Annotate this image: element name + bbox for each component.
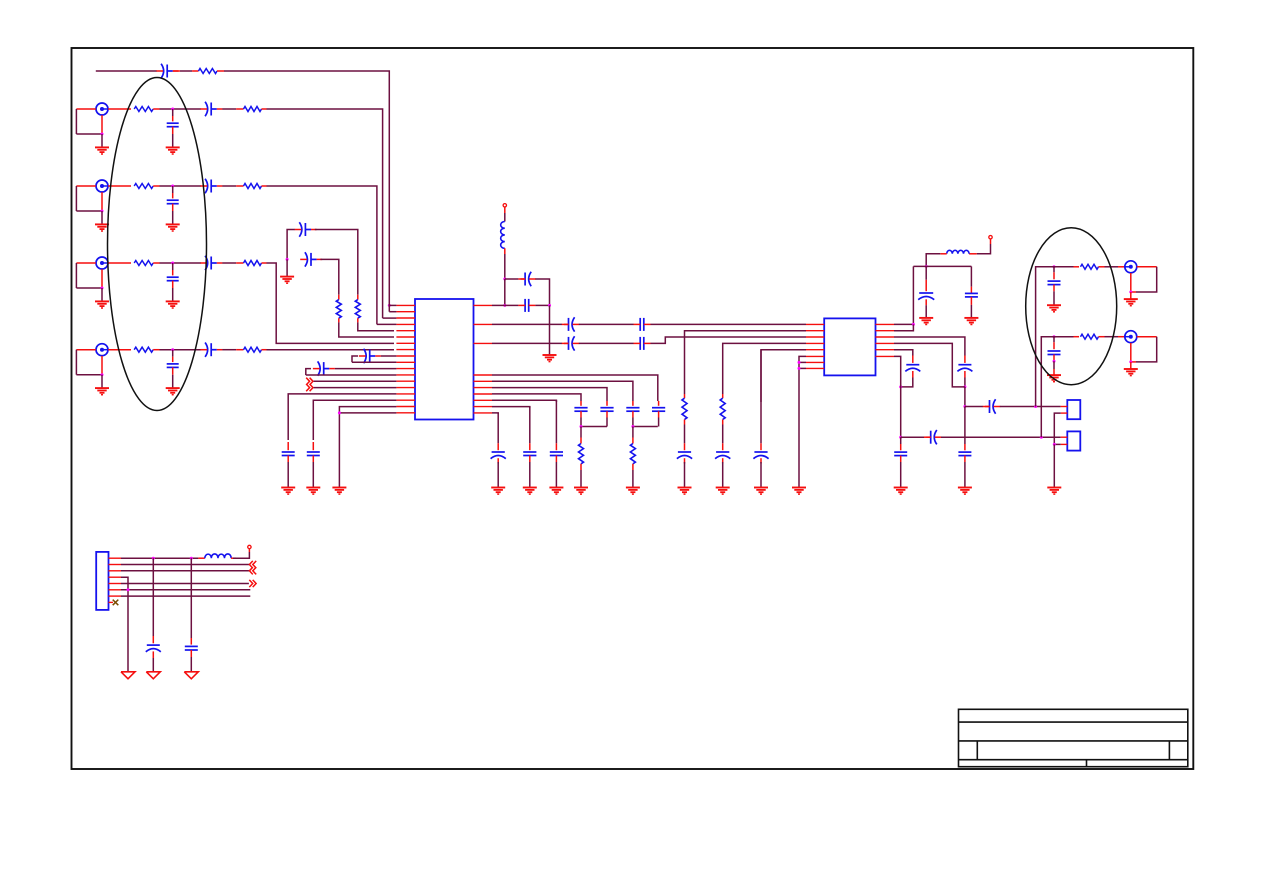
capacitor C series row y=186: [205, 179, 208, 193]
ground: [166, 223, 180, 225]
connector CON box1: [1067, 400, 1080, 419]
wire staple pin12: [306, 374, 397, 376]
resistor R1 top: [192, 70, 198, 72]
ground: [792, 487, 806, 489]
wire loop to ground: [76, 262, 95, 264]
node junction: [631, 425, 634, 428]
capacitor C R5 pol: [912, 356, 914, 363]
wire: [1048, 266, 1074, 268]
wire chain2: [492, 342, 562, 344]
wire row4 to pin8: [267, 349, 395, 351]
node pin1 junction: [388, 304, 391, 307]
U2 left pin stubs: [806, 323, 824, 325]
wire output bus2 up: [1041, 337, 1048, 438]
wire bus to pin2: [389, 311, 396, 313]
box1 pin stubs: [1061, 406, 1068, 408]
capacitor C series cluster B: [305, 252, 308, 266]
op-amp U2 second IC: [824, 318, 875, 375]
node loop junction: [101, 133, 104, 136]
box2 pin stubs: [1061, 436, 1068, 438]
wire to node: [160, 185, 201, 187]
node loop junction: [101, 287, 104, 290]
node junction: [171, 108, 174, 111]
capacitor C column x=658.6: [658, 401, 660, 406]
wire U1 r5 to cap: [492, 400, 556, 402]
wire U2 R3 to cap col: [894, 337, 965, 356]
wire chain y437 right seg: [941, 436, 1061, 438]
input connector J row y=109: [96, 103, 108, 115]
ground: [958, 487, 972, 489]
wire to power pin: [233, 552, 249, 558]
wire pin15 to cap gnd: [288, 394, 396, 440]
capacitor C R3 pol: [964, 356, 966, 363]
wire staple pin10: [352, 361, 396, 363]
U1 right pin stubs upper: [474, 304, 493, 306]
node pin17/18 junction: [338, 411, 341, 414]
resistor R series: [108, 262, 131, 264]
capacitor C output shunt: [1053, 337, 1055, 343]
ground: [1130, 292, 1132, 299]
U1 left pin stubs: [396, 304, 415, 306]
wire: [504, 248, 506, 254]
node output junction y=266.8: [1053, 265, 1056, 268]
wire capA right to resistor right: [315, 230, 358, 295]
off-page chevron row3: [253, 567, 256, 574]
capacitor C rail 2 + ground: [970, 266, 972, 286]
wire U2 L8: [799, 367, 806, 369]
node junction: [1053, 443, 1056, 446]
wire: [504, 207, 506, 213]
ellipse highlight right: [1026, 228, 1117, 385]
node junction: [899, 436, 902, 439]
node junction: [171, 262, 174, 265]
wire chain y406 right seg: [1000, 406, 1061, 408]
wire cap column 1: [152, 558, 154, 636]
wire rail down to R1: [912, 266, 914, 324]
wire capA left down: [287, 230, 295, 260]
wire chain1: [492, 323, 562, 325]
capacitor C shunt: [172, 109, 174, 116]
wire chain y406 left seg: [965, 406, 983, 408]
wire cap2 to ground: [1053, 361, 1055, 369]
wire chain2 jog to U2: [651, 337, 807, 343]
capacitor C1 series top: [161, 64, 164, 78]
wire: [222, 349, 236, 351]
wire: [222, 185, 236, 187]
node loop junction: [101, 373, 104, 376]
node cluster gnd junction: [286, 258, 289, 261]
node junction: [503, 304, 506, 307]
wire: [222, 108, 236, 110]
capacitor C chain2 b: [639, 337, 641, 350]
capacitor C r5 + ground: [555, 400, 557, 443]
ground: [95, 223, 109, 225]
capacitor C column x=581.0: [580, 401, 582, 406]
node junction: [1129, 291, 1132, 294]
wire to node: [160, 349, 201, 351]
wire U1 r2 to cap column: [492, 381, 633, 401]
node loop junction: [101, 210, 104, 213]
node junction: [503, 278, 506, 281]
wire loop to ground: [76, 349, 95, 351]
page border frame: [72, 48, 1194, 769]
resistor R series 2: [236, 185, 243, 187]
wire loop: [1137, 336, 1157, 338]
resistor R right column: [632, 427, 634, 438]
resistor R output: [1074, 336, 1080, 338]
ground: [166, 146, 180, 148]
resistor R series 2: [236, 349, 243, 351]
wire bus1 to pin3: [382, 316, 384, 318]
resistor R left column: [580, 427, 582, 438]
wire to ground: [286, 259, 288, 276]
off-page chevron pin14: [306, 384, 309, 391]
node output junction y=336.7: [1053, 335, 1056, 338]
U2 right pin stubs: [876, 323, 895, 325]
node junction: [580, 425, 583, 428]
wire top to bus: [224, 71, 389, 303]
wire: [222, 262, 236, 264]
wire top antenna line: [96, 70, 157, 72]
off-page chevron row5: [249, 580, 252, 587]
wire pin16 to cap gnd: [313, 400, 396, 440]
resistor R output: [1074, 266, 1080, 268]
inductor L2 horizontal: [969, 253, 977, 255]
node junction: [1040, 436, 1043, 439]
power pin VCC2: [989, 236, 992, 239]
capacitor C L5 pol + ground: [760, 350, 762, 444]
wire J2 row3: [121, 570, 249, 572]
ellipse highlight left: [108, 78, 207, 411]
ground: [95, 387, 109, 389]
wire U1 r3 to cap column: [492, 388, 607, 401]
wire cap column 2: [190, 558, 192, 638]
wire to node: [160, 262, 201, 264]
ground: [574, 487, 588, 489]
wire box1 lower pin: [1054, 413, 1060, 444]
wire row2 to bus: [267, 186, 377, 323]
inductor L3: [198, 557, 204, 559]
capacitor C series cluster A: [299, 222, 302, 236]
wire J2 row1 power: [121, 557, 198, 559]
wire to ground: [549, 305, 551, 355]
resistor R L4: [722, 394, 724, 398]
ground: [280, 276, 294, 278]
op-amp U1 main IC: [415, 299, 474, 420]
ground: [306, 487, 320, 489]
input connector J row y=186: [96, 180, 108, 192]
node junction: [899, 385, 902, 388]
ground: [1047, 487, 1061, 489]
input connector J row y=349.7: [96, 344, 108, 356]
capacitor C pin15: [287, 442, 289, 450]
ground: [332, 487, 346, 489]
capacitor C series row y=263: [205, 256, 208, 270]
node junction: [127, 588, 130, 591]
wire cont down to cap: [964, 407, 966, 445]
no-connect X: [113, 600, 119, 606]
wire row1 to bus: [267, 109, 383, 316]
input connector J row y=263: [96, 257, 108, 269]
inductor L1 vertical: [501, 222, 505, 249]
capacitor C x964 + ground: [964, 444, 966, 450]
output connector: [1118, 266, 1125, 268]
wire down: [504, 279, 506, 305]
wire U2 R1/R2 to rail: [894, 323, 913, 325]
wire: [990, 239, 992, 244]
title block: [959, 709, 1188, 766]
node junction: [963, 385, 966, 388]
capacitor C rail pol + ground: [925, 266, 927, 279]
capacitor C L2 pol + ground: [684, 425, 686, 444]
capacitor C series (bypass A): [505, 278, 519, 280]
capacitor C staple pin9: [352, 356, 358, 362]
capacitor C col1 polarized: [152, 636, 154, 643]
node junction: [798, 361, 801, 364]
wire U1 r4 to cap column: [492, 394, 581, 401]
ground: [543, 354, 557, 356]
wire to rail: [926, 254, 940, 267]
ground: [1047, 374, 1061, 376]
connector J2 bottom left: [96, 552, 108, 610]
resistor R cluster right: [357, 295, 359, 300]
wire to node: [160, 108, 201, 110]
wire J2 row5: [121, 583, 249, 585]
ground: [95, 146, 109, 148]
chassis ground row4: [121, 672, 135, 679]
wire U2 L5 to cap: [761, 350, 806, 402]
wire loop to ground: [76, 185, 95, 187]
capacitor C pin16: [312, 442, 314, 450]
node junction: [171, 348, 174, 351]
node junction: [798, 367, 801, 370]
wire loop: [1137, 266, 1157, 268]
wire cap1 to ground: [1053, 291, 1055, 305]
wire: [1048, 336, 1074, 338]
capacitor C chain1 b: [639, 318, 641, 331]
node junction: [190, 557, 193, 560]
wire U2 R5 to cap: [894, 350, 913, 356]
capacitor C series y406: [989, 400, 991, 413]
wire down to ground: [1053, 444, 1055, 487]
ground: [166, 300, 180, 302]
node junction: [1053, 360, 1056, 363]
wire U1 r7 to cap: [492, 413, 498, 414]
wire pin17 to gnd: [339, 407, 396, 488]
power pin VCC3: [248, 545, 251, 548]
capacitor C shunt: [172, 263, 174, 270]
capacitor C r7 polarized + ground: [497, 413, 499, 443]
wire row3 to pin7: [267, 263, 395, 343]
chassis ground col2: [184, 672, 198, 679]
wire to pin5: [358, 322, 394, 330]
wire to pin6: [339, 322, 394, 337]
capacitor C shunt: [172, 350, 174, 357]
wire J2 row7: [121, 595, 250, 597]
wire U2 L4 to cap column: [723, 343, 806, 394]
wire U2 L7: [799, 361, 806, 363]
wire chain y437 left seg: [901, 436, 925, 438]
wire output bus1 up: [1036, 267, 1048, 407]
wire cap pair join left: [581, 426, 607, 428]
wire loop to ground: [76, 108, 95, 110]
ground: [919, 317, 933, 319]
resistor R series: [108, 185, 131, 187]
resistor R series: [108, 108, 131, 110]
wire: [579, 342, 634, 344]
wire bus2 to pin4: [376, 323, 378, 325]
ground: [1130, 362, 1132, 369]
ground: [1047, 304, 1061, 306]
ground: [894, 487, 908, 489]
off-page chevron row2: [253, 561, 256, 568]
capacitor C column x=632.9: [632, 401, 634, 406]
capacitor C output shunt: [1053, 267, 1055, 273]
resistor R cluster left: [338, 295, 340, 300]
capacitor C series row y=349.7: [205, 343, 208, 357]
wire capB right to resistor left: [320, 259, 338, 294]
capacitor C series y437: [930, 431, 932, 444]
capacitor C col2: [190, 638, 192, 645]
chassis ground col1: [146, 672, 160, 679]
wire: [180, 70, 192, 72]
ground: [281, 487, 295, 489]
ground: [166, 387, 180, 389]
wire pinR1 to node: [492, 304, 505, 306]
off-page chevron pin13: [306, 378, 309, 385]
wire U2 L2 to cap column: [685, 331, 807, 394]
J2 pin stubs: [109, 557, 122, 559]
node junction: [171, 185, 174, 188]
wire pin18 join: [339, 412, 396, 414]
ground: [95, 300, 109, 302]
wire J2 row4 jog down: [121, 577, 128, 672]
wire x900 cont to cap: [900, 437, 902, 444]
capacitor C x900 + ground: [900, 444, 902, 450]
resistor R series 2: [236, 108, 243, 110]
node junction: [963, 405, 966, 408]
ground: [964, 317, 978, 319]
power pin VCC1: [503, 204, 506, 207]
wire cap pair join right: [633, 426, 658, 428]
capacitor C staple pin11: [306, 369, 311, 375]
wire: [535, 279, 549, 305]
node junction: [925, 265, 928, 268]
capacitor C r6 + ground: [529, 407, 531, 444]
wire vert cont down: [964, 387, 966, 407]
capacitor C series row y=109: [205, 102, 208, 116]
ground: [626, 487, 640, 489]
resistor R L2: [684, 394, 686, 398]
capacitor C column x=607.0: [606, 401, 608, 406]
wire U1 r1 to cap column: [492, 375, 658, 401]
wire power rail: [913, 265, 971, 267]
wire J2 row6: [121, 589, 250, 591]
node junction: [912, 323, 915, 326]
wire chain1 to U2: [651, 323, 807, 325]
wire U2 R4 jog: [894, 343, 965, 387]
wire: [579, 323, 634, 325]
node junction: [548, 304, 551, 307]
output connector: [1118, 336, 1125, 338]
resistor R series: [108, 349, 131, 351]
wire J2 row2: [121, 564, 249, 566]
wire U1 r6 to cap: [492, 407, 530, 408]
capacitor C shunt: [172, 186, 174, 193]
wire U2 R6 down: [894, 356, 901, 437]
U1 right pin stubs lower: [474, 374, 493, 376]
node junction: [1129, 360, 1132, 363]
capacitor C chain1 a: [568, 318, 570, 331]
capacitor C series (bypass B): [505, 304, 519, 306]
capacitor C chain2 a: [568, 337, 570, 350]
connector CON box2: [1067, 431, 1080, 450]
node junction: [152, 557, 155, 560]
wire box2 lower pin: [1054, 443, 1060, 445]
capacitor C L4 pol + ground: [722, 425, 724, 444]
resistor R series 2: [236, 262, 243, 264]
node junction: [1034, 405, 1037, 408]
wire U2 L6 down: [799, 356, 806, 487]
